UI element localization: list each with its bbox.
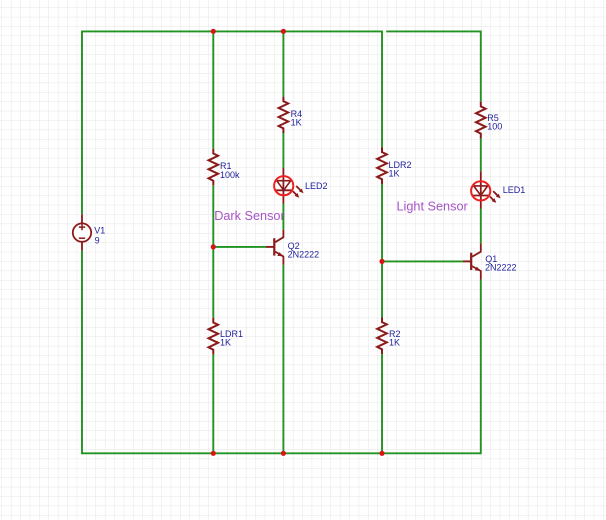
svg-text:Dark Sensor: Dark Sensor: [214, 209, 285, 223]
svg-text:9: 9: [95, 236, 100, 246]
wire R5 column top: [480, 31, 482, 102]
junction dot bottom rail / Q2 emitter column: [281, 451, 286, 456]
resistor R2: [377, 318, 387, 355]
svg-text:100: 100: [487, 121, 502, 131]
resistor R4: [279, 97, 289, 134]
photoresistor LDR2: [377, 148, 387, 185]
svg-text:LED1: LED1: [503, 185, 526, 195]
junction dot Q2 base / R1 column: [211, 244, 216, 249]
svg-text:1K: 1K: [220, 337, 231, 347]
photoresistor LDR1: [209, 318, 219, 355]
wire LED2 to Q2 collector: [282, 204, 284, 230]
wire LDR2 to R2 (through Q1 base node): [381, 184, 383, 318]
svg-text:V1: V1: [94, 226, 105, 236]
wire Q2 emitter to ground rail: [282, 265, 284, 454]
svg-text:1K: 1K: [389, 168, 400, 178]
wire LDR1 bottom: [212, 354, 214, 453]
transistor Q2: [266, 230, 283, 265]
wire left vertical upper (V+ to V1): [81, 31, 83, 215]
junction dot top rail / R1 column: [211, 29, 216, 34]
svg-text:1K: 1K: [291, 117, 302, 127]
wire Q1 base: [382, 260, 463, 262]
wire Q1 emitter to ground rail: [480, 280, 482, 455]
svg-text:100k: 100k: [220, 170, 240, 180]
wire R1 column top: [212, 31, 214, 148]
junction dot top rail / R4 column: [281, 29, 286, 34]
wire LED1 to Q1 collector: [480, 209, 482, 244]
wire top rail (V+) from left corner to LDR2 column: [82, 30, 382, 32]
wire R2 bottom: [381, 354, 383, 454]
wire Q2 base: [213, 246, 266, 248]
wire top-right segment to R5 column: [386, 30, 481, 32]
junction dot Q1 base / LDR2 column: [379, 259, 384, 264]
svg-text:2N2222: 2N2222: [485, 262, 517, 272]
wire left vertical lower (V1 to ground rail): [81, 251, 83, 454]
LED1: [471, 171, 501, 208]
svg-text:Light Sensor: Light Sensor: [397, 200, 469, 214]
junction dot bottom rail / LDR1 column: [211, 451, 216, 456]
svg-text:1K: 1K: [389, 337, 400, 347]
svg-text:LED2: LED2: [305, 181, 328, 191]
svg-text:2N2222: 2N2222: [288, 250, 320, 260]
wire R4 column top: [282, 31, 284, 96]
junction dot bottom rail / R2 column: [379, 451, 384, 456]
transistor Q1: [463, 243, 481, 279]
wire R4 to LED2: [282, 133, 284, 168]
wire R1 to LDR1 (through Q2 base node): [212, 185, 214, 318]
resistor R1: [209, 149, 219, 186]
voltage source V1: [73, 214, 91, 251]
resistor R5: [476, 102, 486, 139]
wire LDR2 column top: [381, 31, 383, 148]
LED2: [274, 168, 304, 204]
wire bottom rail (V-): [82, 452, 481, 454]
wire R5 to LED1: [480, 138, 482, 171]
